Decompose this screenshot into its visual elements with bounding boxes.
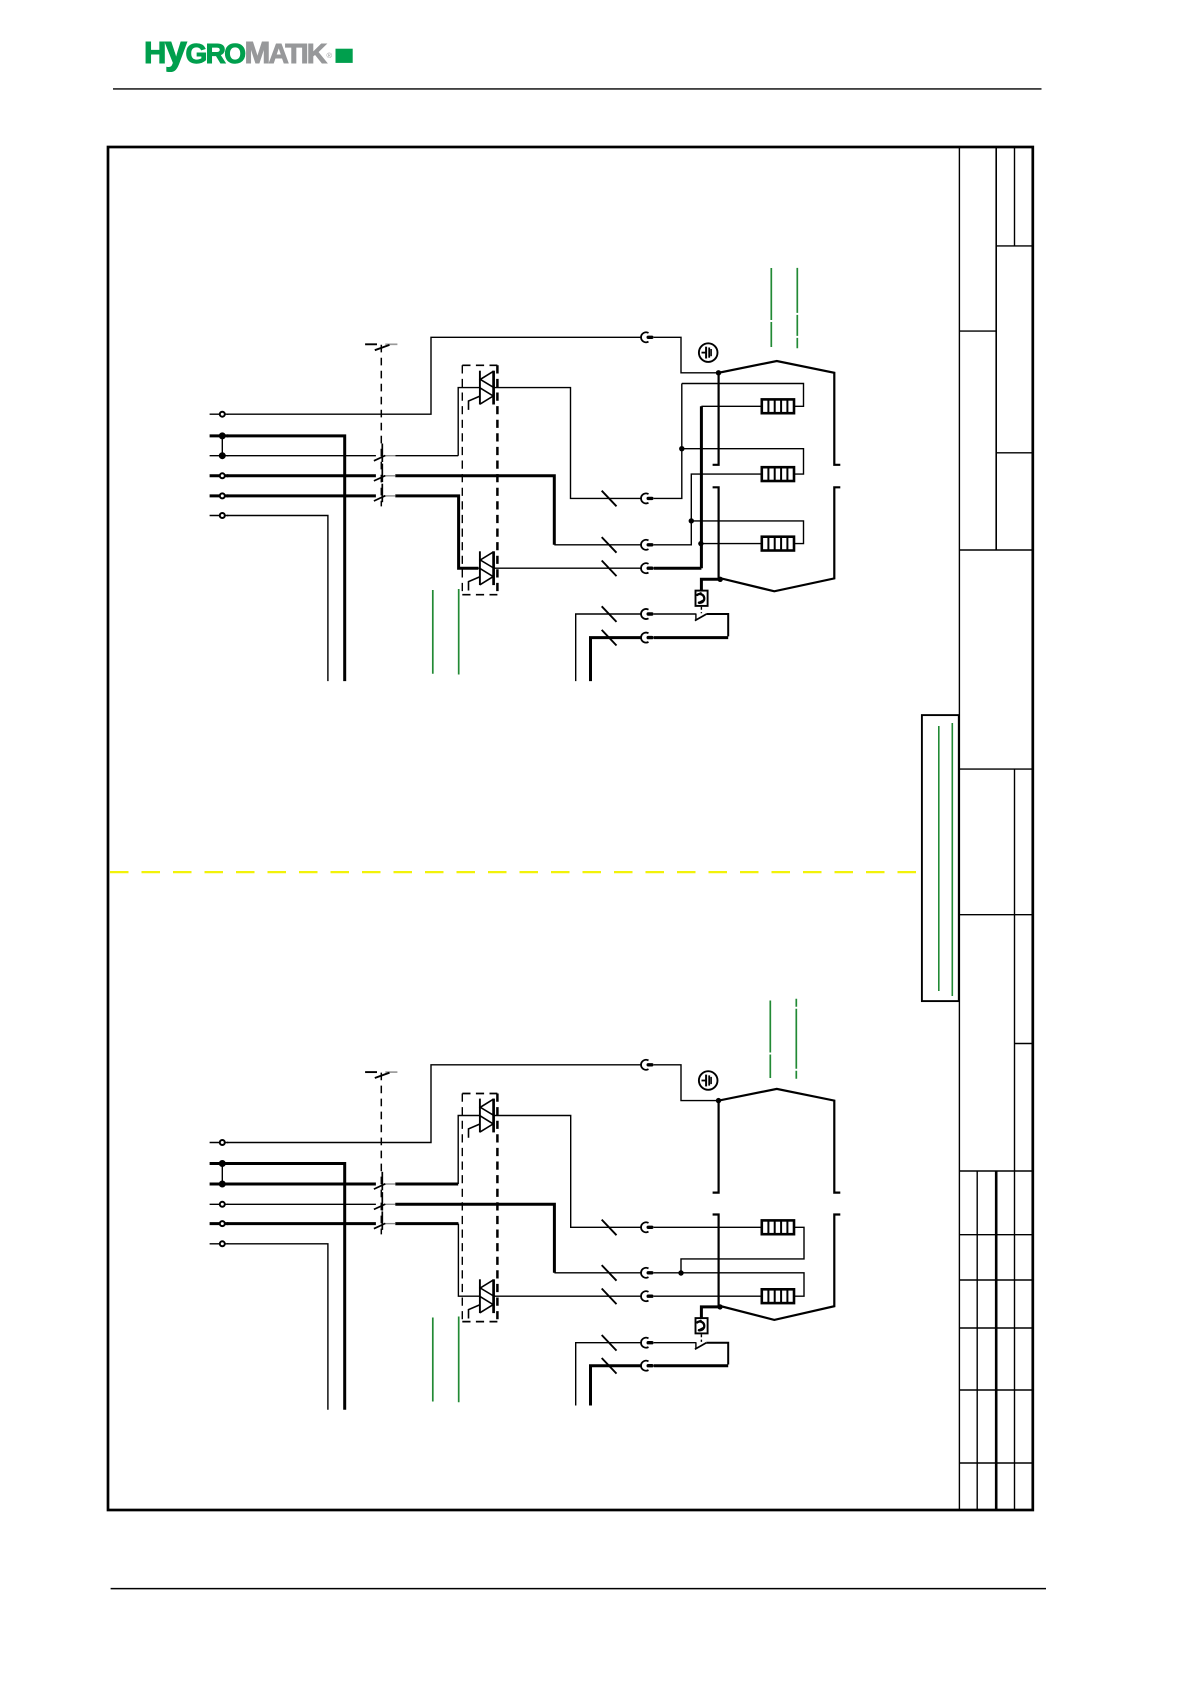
title block row line 9 — [959, 1234, 1032, 1236]
connector contact -X4:3 — [641, 1268, 652, 1278]
wire return to stub lower (thick) — [591, 1366, 642, 1406]
wire to heating element E1 right — [682, 384, 804, 407]
wire phase 3 to triac V2 (thick) — [227, 494, 376, 497]
connector contact -X4:1 — [641, 1060, 652, 1070]
title block row line 13 — [959, 1462, 1032, 1464]
title block row line 7 — [1015, 1043, 1033, 1045]
wire N bus (thick) — [227, 436, 345, 681]
wire phase 3 after break (thick) — [395, 496, 478, 568]
wire riser to triac V1 — [458, 388, 480, 456]
connector contact -X4:2 — [641, 1222, 652, 1232]
wire triac V3 output — [494, 1116, 642, 1228]
wire bridge X1.2-X1.3 — [221, 436, 223, 456]
wire level sensor line — [576, 614, 642, 681]
wire connector to level contact — [654, 613, 696, 615]
junction cylinder shell lower — [716, 1098, 721, 1103]
title block row line 11 — [959, 1327, 1032, 1329]
green steam hose line 4 — [795, 999, 797, 1080]
wire-break slash S16 — [602, 1289, 617, 1305]
connector contact -X4:5 — [641, 1338, 652, 1348]
disconnect switch marker Q1 — [365, 344, 397, 350]
terminal X1.3 — [210, 453, 229, 458]
wire-break contact S1 — [374, 444, 396, 463]
wire phase 1 lower (thick) — [227, 1183, 376, 1186]
wire element E3 left — [701, 543, 762, 545]
title block column line 4 (bottom table) — [976, 1171, 978, 1510]
junction element loop lower — [678, 1270, 683, 1275]
title block column line 3 lower — [1014, 769, 1016, 1510]
wire phase 1 after break — [395, 455, 458, 457]
wire triac V2 stub — [478, 567, 480, 569]
junction element feed — [679, 446, 684, 451]
terminal X3.4 — [210, 1202, 229, 1207]
title block column line — [958, 147, 960, 1510]
wire phase 3 lower (thick) — [227, 1222, 376, 1225]
wire connector to element E4 left — [654, 1226, 762, 1228]
steam cylinder upper shell lower — [713, 1089, 841, 1193]
heating element E2 — [762, 467, 794, 481]
connector contact -X2:4 — [641, 563, 652, 573]
wire contact to return loop lower — [706, 1343, 728, 1365]
heating element E5 — [762, 1289, 794, 1303]
wire element bus riser (thick) — [700, 406, 703, 568]
terminal X3.2 — [210, 1161, 229, 1166]
connector contact -X2:5 — [641, 609, 652, 619]
wire phase 2 (thick) — [227, 474, 376, 477]
wire contact to return loop — [706, 614, 728, 636]
title block row line 5 — [959, 768, 1032, 770]
terminal X1.1 — [210, 412, 229, 417]
footer rule — [111, 1588, 1046, 1590]
mechanical link pump-contact — [700, 607, 702, 614]
wire-break slash S6 — [602, 561, 617, 577]
wire connector to element E5 left — [654, 1295, 762, 1297]
terminal X1.5 — [210, 493, 229, 498]
wire bridge X3.2-X3.3 — [221, 1164, 223, 1185]
wire phase 2 lower — [227, 1203, 376, 1205]
earth / ground symbol PE1 — [699, 343, 718, 362]
svg-text:®: ® — [327, 51, 333, 60]
wire connector to element bus (thick) — [654, 567, 702, 570]
wire phase 2 after break (thick) — [395, 476, 554, 545]
wire to drain pump (thick) — [701, 579, 720, 590]
wire-break slash S5 — [602, 537, 617, 553]
heating element E3 — [762, 537, 794, 551]
wire element E1 left — [701, 405, 762, 407]
solid-state relay dashed enclosure A1 — [462, 365, 497, 594]
wire triac V1 output — [494, 388, 642, 499]
wire to connector row 2 — [554, 544, 641, 546]
title block row line 1 — [996, 245, 1033, 247]
title block row line 4 — [959, 549, 1032, 551]
connector contact -X2:6 — [641, 633, 652, 643]
wire to heating element E3 right — [691, 521, 803, 544]
wire-break contact S12 — [374, 1192, 396, 1211]
title block row line 3 — [996, 452, 1033, 454]
wire-break slash S18 — [602, 1358, 617, 1374]
level switch contact S20 — [695, 1342, 706, 1349]
heating element E1 — [762, 399, 794, 413]
title block row line 12 — [959, 1389, 1032, 1391]
wire L to cylinder top — [227, 337, 642, 414]
terminal X1.2 — [210, 433, 229, 438]
wire connector to element E2 left — [654, 474, 762, 545]
wire control line — [227, 516, 328, 682]
connector contact -X2:3 — [641, 540, 652, 550]
disconnect switch marker Q2 — [365, 1072, 397, 1078]
wire phase 3 lower after break (thick) — [395, 1222, 458, 1225]
drain pump M2 — [696, 1318, 708, 1333]
wire riser to triac V3 — [458, 1116, 480, 1185]
green steam hose line 1 — [770, 268, 772, 347]
junction cylinder drain lower — [717, 1304, 722, 1309]
green marker line 7 — [432, 1318, 434, 1402]
junction cylinder shell — [716, 370, 721, 375]
level switch contact S10 — [695, 614, 706, 621]
terminal X3.5 — [210, 1221, 229, 1226]
connector contact -X4:6 — [641, 1361, 652, 1371]
green marker line 5 — [432, 590, 434, 674]
junction cylinder drain — [718, 577, 723, 582]
wire to connector row 2 lower — [554, 1272, 641, 1274]
junction element bus — [698, 541, 703, 546]
title block row line 6 — [959, 914, 1032, 916]
triac V3 — [469, 1099, 494, 1138]
green steam hose line 2 — [796, 268, 798, 348]
HygroMatik logo — [144, 28, 353, 72]
triac V4 — [469, 1279, 494, 1318]
steam cylinder upper shell upper — [713, 361, 841, 465]
terminal X1.6 — [210, 513, 229, 518]
wire triac V4 output — [494, 1295, 642, 1297]
steam cylinder lower shell lower — [713, 1215, 841, 1320]
earth / ground symbol PE2 — [699, 1071, 718, 1090]
wire connector to level contact lower — [654, 1342, 696, 1344]
connector contact -X2:1 — [641, 332, 652, 342]
revision strip box — [922, 715, 959, 1001]
wire-break slash S8 — [602, 630, 617, 646]
wire-break contact S3 — [374, 484, 396, 503]
title block column line 3 upper — [1014, 147, 1016, 246]
wire-break slash S7 — [602, 606, 617, 622]
steam cylinder lower shell upper — [713, 487, 841, 591]
title block column line 2 lower (thick) — [995, 1171, 998, 1510]
connector contact -X2:2 — [641, 493, 652, 503]
wire-break contact S2 — [374, 464, 396, 483]
wire level sensor line lower — [576, 1343, 642, 1406]
wire phase 1 lower after break (thick) — [395, 1183, 458, 1186]
wire-break slash S17 — [602, 1335, 617, 1351]
wire to drain pump lower (thick) — [701, 1307, 720, 1318]
wire-break slash S14 — [602, 1220, 617, 1236]
triac V2 — [469, 551, 494, 590]
wire connector to element riser — [654, 384, 682, 499]
wire element E4 right loop — [681, 1227, 804, 1273]
drain pump M1 — [696, 591, 708, 606]
wire-break contact S11 — [374, 1172, 396, 1191]
green marker line 8 — [458, 1317, 460, 1403]
terminal X3.1 — [210, 1140, 229, 1145]
green bar 1 — [938, 726, 940, 991]
wire riser to triac V4 — [458, 1224, 480, 1297]
wire-break slash S4 — [602, 491, 617, 507]
wire return to stub (thick) — [591, 638, 642, 682]
green bar 2 — [951, 723, 953, 996]
wire N bus lower (thick) — [227, 1164, 345, 1410]
green steam hose line 3 — [769, 1001, 771, 1079]
connector contact -X4:4 — [641, 1291, 652, 1301]
yellow dashed separator line — [110, 871, 919, 873]
wire connector to cylinder shell — [654, 337, 718, 373]
wire triac V2 output — [494, 567, 642, 569]
wire to heating element E2 right — [682, 449, 804, 474]
drawing frame border — [108, 147, 1033, 1510]
header rule — [113, 88, 1042, 90]
green marker line 6 — [458, 589, 460, 675]
wire return loop lower (thick) — [654, 1364, 729, 1367]
wire to triac V1 input — [227, 455, 376, 457]
solid-state relay dashed enclosure A2 — [462, 1094, 497, 1322]
triac V1 — [469, 371, 494, 410]
terminal X3.3 — [210, 1182, 229, 1187]
title block row line 2 — [959, 330, 996, 332]
dashed boundary line Q2 — [380, 1073, 382, 1235]
terminal X1.4 — [210, 473, 229, 478]
terminal X3.6 — [210, 1241, 229, 1246]
wire L to cylinder top (lower) — [227, 1065, 642, 1143]
wire connector to element E5 right — [654, 1273, 804, 1296]
title block column line 2 upper — [995, 147, 997, 550]
dashed boundary line Q1 — [380, 345, 382, 507]
heating element E4 — [762, 1220, 794, 1234]
wire-break contact S13 — [374, 1211, 396, 1230]
wire return loop (thick) — [654, 636, 729, 639]
wire control line lower — [227, 1244, 328, 1410]
junction element feed 2 — [689, 518, 694, 523]
title block row line 10 — [959, 1279, 1032, 1281]
mechanical link pump-contact lower — [700, 1334, 702, 1342]
wire connector to cylinder shell (lower) — [654, 1065, 718, 1101]
wire phase 2 lower thick part — [395, 1204, 554, 1273]
title block row line 8 — [959, 1170, 1032, 1172]
wire-break slash S15 — [602, 1265, 617, 1281]
